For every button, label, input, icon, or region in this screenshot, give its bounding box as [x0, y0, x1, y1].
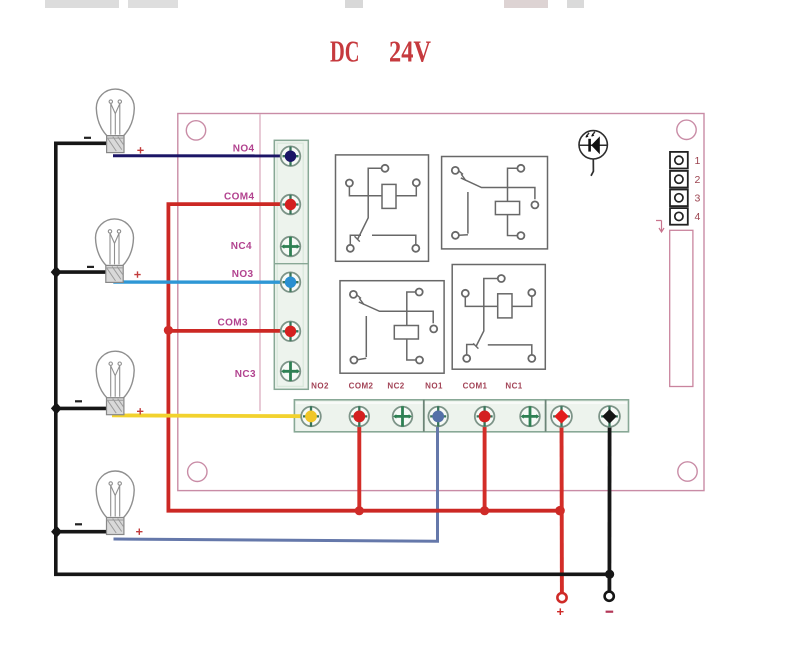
- header pin numbers 1-4: [695, 155, 701, 223]
- wire blue NO3 to bulb L2: [113, 280, 290, 284]
- wire red COM bus: COM4 left then down to bottom rail: [168, 204, 561, 511]
- terminal screw COM3: [281, 322, 301, 342]
- junction dot positive rail corner: [555, 506, 565, 516]
- svg-text:1: 1: [695, 155, 701, 167]
- bulb L3: [96, 351, 134, 415]
- wire black stub bulb L4: [56, 530, 106, 534]
- terminal screw COM1: [475, 406, 495, 426]
- bulb L1: [96, 89, 134, 153]
- plus mark L3: [137, 408, 143, 414]
- relay K4 box: [336, 155, 429, 261]
- plus mark L1: [137, 147, 143, 153]
- junction dot COM3: [164, 326, 173, 335]
- mounting hole top-right: [677, 120, 696, 139]
- terminal screw power minus: [599, 406, 620, 427]
- plus mark L2: [134, 271, 140, 277]
- label DC 24V supply voltage: [330, 34, 431, 69]
- terminal screw NC4: [281, 237, 301, 257]
- bulb L2: [96, 219, 134, 283]
- svg-text:NC2: NC2: [387, 382, 404, 391]
- terminal block bottom row: [294, 400, 628, 432]
- mounting hole bottom-right: [678, 462, 697, 481]
- svg-text:DC: DC: [330, 34, 360, 68]
- plus mark L4: [136, 529, 142, 535]
- svg-text:NO1: NO1: [425, 382, 443, 391]
- terminal screw COM4: [281, 195, 301, 215]
- wire red COM2 drop: [357, 416, 361, 510]
- svg-text:COM2: COM2: [349, 382, 374, 391]
- svg-text:24V: 24V: [389, 35, 431, 69]
- svg-text:NC1: NC1: [505, 382, 522, 391]
- terminal screw NC2: [393, 406, 413, 426]
- svg-text:NO2: NO2: [311, 382, 329, 391]
- svg-text:NC4: NC4: [231, 241, 252, 252]
- junction dot L3: [51, 402, 62, 414]
- svg-text:NC3: NC3: [235, 369, 256, 380]
- mounting hole bottom-left: [188, 462, 207, 481]
- svg-text:+: +: [557, 604, 565, 619]
- wire black stub bulb L3: [56, 407, 108, 411]
- svg-text:COM4: COM4: [224, 192, 255, 203]
- header J1 pin circles: [675, 156, 683, 220]
- svg-text:NO3: NO3: [232, 269, 254, 280]
- wire NO1 slate-blue from NO1 terminal to bulb L4: [114, 416, 438, 541]
- svg-text:COM3: COM3: [218, 318, 249, 329]
- header J1 pin squares: [670, 152, 688, 225]
- terminal screw NO2: [301, 406, 321, 426]
- silkscreen corner mark near NO2: [302, 379, 308, 389]
- terminal block left column: [274, 140, 308, 389]
- terminal screw NO4: [281, 146, 301, 166]
- terminal screw NO1: [428, 406, 448, 426]
- silkscreen arrow mark J: [656, 221, 664, 233]
- silkscreen tall rectangle: [670, 230, 693, 386]
- svg-text:3: 3: [695, 193, 701, 205]
- terminal screw NO3: [281, 272, 301, 292]
- wire red positive terminal drop: [560, 416, 564, 592]
- wire red COM1 drop: [483, 416, 487, 510]
- wire navy NO4 to bulb L1: [113, 154, 291, 157]
- silkscreen divider line: [259, 114, 261, 411]
- relay K3 box: [442, 157, 548, 249]
- PCB board outline: [178, 114, 704, 491]
- label minus polarity: [606, 611, 614, 613]
- svg-text:4: 4: [695, 211, 701, 223]
- svg-text:2: 2: [695, 174, 701, 186]
- svg-text:NO4: NO4: [233, 144, 255, 155]
- wire yellow NO2 to bulb L3: [112, 413, 311, 418]
- terminal screw COM2: [350, 406, 370, 426]
- transistor / LED indicator U1: [579, 131, 607, 176]
- junction dot COM1 rail: [480, 506, 489, 515]
- negative ring terminal: [605, 592, 614, 601]
- relay K1 box: [452, 265, 545, 370]
- positive ring terminal: [557, 593, 566, 602]
- junction dot negative rail: [605, 570, 614, 579]
- terminal screw power plus: [551, 406, 572, 427]
- minus mark L2: [87, 266, 94, 268]
- terminal screw NC1: [520, 406, 540, 426]
- bulb L4: [96, 471, 134, 535]
- junction dot L4: [51, 526, 62, 538]
- terminal screw NC3: [281, 362, 301, 382]
- minus mark L3: [75, 400, 82, 402]
- junction dot COM2 rail: [355, 506, 364, 515]
- minus mark L4: [75, 523, 82, 525]
- wire black stub bulb L2: [56, 270, 109, 274]
- wire red branch COM3: [168, 329, 290, 333]
- wire black negative terminal drop: [608, 416, 612, 591]
- junction dot L2: [51, 266, 62, 278]
- mounting hole top-left: [186, 121, 205, 140]
- relay K2 box: [340, 281, 444, 374]
- minus mark L1: [84, 137, 91, 139]
- wire black negative bus: [56, 143, 610, 574]
- svg-text:COM1: COM1: [463, 382, 488, 391]
